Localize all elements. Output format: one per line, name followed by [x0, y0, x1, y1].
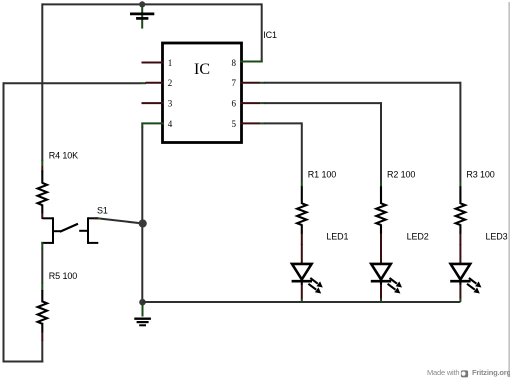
wire [264, 82, 460, 182]
wire [3, 82, 5, 361]
wire [42, 3, 261, 5]
svg-text:Made with: Made with [427, 368, 459, 377]
pin 8 [232, 58, 263, 68]
label R5 100 [49, 271, 77, 281]
wire [264, 102, 381, 181]
pin 6 [232, 99, 265, 109]
resistor R2 [376, 181, 385, 245]
pin 1 [142, 58, 173, 68]
pin 5 [232, 119, 265, 129]
label R3 100 [466, 170, 494, 180]
label R4 10K [49, 151, 78, 161]
svg-text:R5 100: R5 100 [49, 271, 77, 281]
wire [264, 122, 302, 181]
svg-text:2: 2 [168, 78, 173, 88]
wire [102, 219, 144, 224]
wire [41, 248, 43, 284]
wire [143, 301, 461, 303]
label IC1 [263, 30, 277, 40]
IC U1 body [163, 43, 242, 143]
battery (power supply) symbol [130, 4, 154, 28]
svg-text:R3 100: R3 100 [466, 170, 494, 180]
svg-text:3: 3 [168, 99, 173, 109]
label LED1 [326, 232, 348, 242]
svg-text:4: 4 [168, 119, 173, 129]
svg-text:5: 5 [232, 119, 237, 129]
LED LED2 [371, 244, 402, 302]
junction: battery on supply wire [139, 1, 145, 7]
wire [4, 82, 147, 84]
svg-text:R4 10K: R4 10K [49, 151, 78, 161]
LED LED3 [450, 244, 481, 302]
label LED2 [407, 232, 429, 242]
junction: ground node [139, 299, 146, 306]
wire [141, 123, 143, 302]
ground [134, 302, 151, 325]
svg-text:Fritzing.org: Fritzing.org [472, 368, 510, 377]
svg-text:R1 100: R1 100 [308, 170, 336, 180]
wire [261, 3, 263, 62]
svg-text:IC: IC [194, 61, 210, 78]
wire [41, 340, 43, 363]
junction: S1 to pin-4 net [139, 219, 147, 227]
pin 2 [146, 78, 173, 88]
label R1 100 [308, 170, 336, 180]
switch S1 [41, 217, 102, 248]
pin 4 [141, 119, 173, 129]
svg-text:6: 6 [232, 99, 237, 109]
svg-text:LED3: LED3 [486, 232, 508, 242]
wire [41, 3, 43, 161]
svg-text:8: 8 [232, 58, 237, 68]
resistor R1 [297, 181, 306, 245]
pin 7 [232, 78, 265, 88]
svg-text:LED2: LED2 [407, 232, 429, 242]
resistor R4 [38, 160, 47, 219]
wire [3, 361, 44, 363]
svg-text:1: 1 [168, 58, 173, 68]
resistor R3 [456, 181, 465, 245]
label R2 100 [387, 170, 415, 180]
LED LED1 [292, 244, 323, 302]
svg-text:R2 100: R2 100 [387, 170, 415, 180]
resistor R5 [38, 282, 47, 340]
label LED3 [486, 232, 508, 242]
pin 3 [142, 99, 173, 109]
svg-text:7: 7 [232, 78, 237, 88]
svg-text:S1: S1 [97, 205, 108, 215]
label S1 [97, 205, 108, 215]
svg-text:LED1: LED1 [326, 232, 348, 242]
svg-text:IC1: IC1 [263, 30, 277, 40]
